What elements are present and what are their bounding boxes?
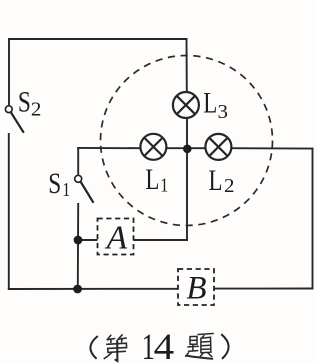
caption open paren (90, 336, 97, 359)
svg-text:B: B (186, 270, 206, 306)
svg-text:4: 4 (154, 327, 175, 363)
svg-text:2: 2 (31, 98, 42, 120)
svg-text:L: L (209, 164, 223, 197)
switch S2 terminal circle (5, 106, 12, 113)
wire junction to L2 left (187, 147, 205, 149)
junction dot bottom wire (73, 285, 82, 294)
svg-text:2: 2 (224, 175, 235, 197)
wire lamp row left (S1 corner to L1) (78, 147, 140, 149)
box A dashed border (98, 219, 134, 255)
switch S1 terminal circle (75, 175, 82, 182)
svg-text:1: 1 (62, 179, 70, 201)
wire top horizontal (9, 38, 187, 40)
wire S1 branch upper vertical (corner to S1 terminal) (77, 148, 79, 175)
switch S2 blade (11, 112, 24, 132)
dashed circle (dashed boundary around lamps) (101, 56, 273, 226)
caption character Ti (题) hand-drawn (186, 334, 214, 359)
svg-text:L: L (203, 87, 217, 120)
wire S1 branch lower vertical (below blade through A junction to bottom) (77, 204, 79, 289)
wire bottom horizontal left (to box B) (9, 288, 178, 290)
lamp L2 (205, 134, 231, 160)
wire left vertical lower (below S2 to bottom corner) (8, 134, 10, 289)
wire junction down to A-row corner (186, 150, 188, 240)
box B dashed border (178, 269, 214, 305)
svg-text:S: S (18, 86, 31, 119)
caption character Di (第) hand-drawn (104, 335, 126, 361)
junction dot center (lamp row) (183, 145, 192, 154)
switch S1 blade (81, 182, 93, 202)
svg-text:1: 1 (160, 174, 168, 196)
wire stub A junction to box A left (78, 239, 98, 241)
wire A-row horizontal (box A right to corner) (134, 239, 188, 241)
wire L2 right to right vertical (231, 147, 312, 149)
wire right vertical (312, 149, 314, 289)
svg-text:A: A (105, 219, 128, 256)
caption close paren (221, 334, 228, 359)
svg-text:L: L (145, 163, 159, 196)
lamp L1 (140, 134, 166, 160)
wire bottom horizontal right (box B to right corner) (214, 288, 313, 290)
svg-text:S: S (48, 167, 61, 200)
svg-text:3: 3 (218, 101, 229, 123)
wire top feed down to lamp L3 (186, 39, 188, 92)
lamp L3 (173, 92, 199, 118)
junction dot A row (74, 236, 83, 245)
wire left vertical upper (top corner to S2 terminal) (8, 39, 10, 106)
wire L3 bottom to center junction (186, 118, 188, 150)
wire L1 right to junction (166, 147, 187, 149)
